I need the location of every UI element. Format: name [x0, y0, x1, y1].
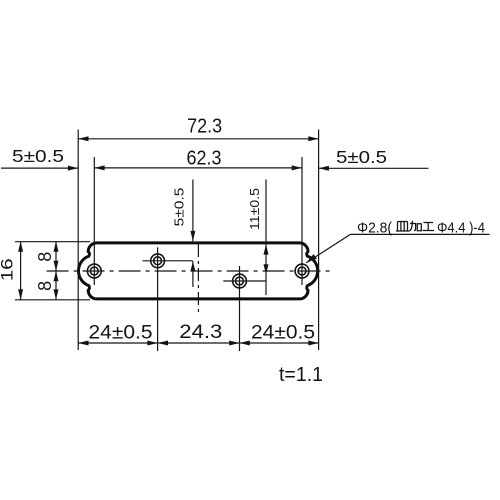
- svg-text:11±0.5: 11±0.5: [247, 188, 262, 230]
- arrowheads: [18, 136, 329, 345]
- svg-text:Φ2.8(: Φ2.8(: [357, 219, 392, 236]
- hole H4 inner: [298, 267, 306, 275]
- hole H3 inner: [236, 277, 244, 285]
- arrow chain left: [78, 341, 88, 346]
- centerline horizontal dash-dot: [47, 270, 330, 272]
- extension line top edge left: [15, 241, 90, 243]
- hole H2 inner: [154, 257, 162, 265]
- svg-text:5±0.5: 5±0.5: [172, 188, 187, 227]
- arrow 5 left: [68, 166, 78, 171]
- dimension line bottom chain: [78, 342, 318, 344]
- dimension line 16: [20, 241, 22, 299]
- svg-text:8: 8: [35, 281, 55, 291]
- dimension line 11 vertical: [265, 180, 267, 296]
- svg-text:72.3: 72.3: [187, 115, 222, 138]
- kanji sara (dish) drawn: [396, 222, 409, 232]
- arrow 8 top: [54, 241, 59, 251]
- plate outline: [78, 243, 317, 299]
- hole H2 outer: [151, 254, 165, 268]
- arrow chain at hole3 right: [240, 341, 250, 346]
- arrow chain at hole3 left: [229, 341, 239, 346]
- hole H1 outer: [87, 264, 101, 278]
- arrow 5v down: [190, 231, 195, 241]
- svg-text:5±0.5: 5±0.5: [12, 146, 64, 166]
- arrow 16 bottom: [18, 289, 23, 299]
- arrow 62.3 left: [94, 165, 104, 170]
- svg-text:5±0.5: 5±0.5: [336, 147, 387, 167]
- dimension line 72.3: [78, 138, 318, 140]
- hole H3 horizontal line: [223, 280, 266, 282]
- centerline vertical dash-dot: [197, 244, 199, 313]
- arrow 5v up: [190, 261, 195, 271]
- svg-text:24.3: 24.3: [179, 321, 222, 343]
- dimension line 5 vertical lower: [192, 261, 194, 287]
- svg-text:Φ4.4 )-4: Φ4.4 )-4: [437, 219, 485, 236]
- svg-text:t=1.1: t=1.1: [279, 363, 323, 386]
- arrow leader: [306, 254, 317, 263]
- dimension line 5 right: [319, 167, 429, 169]
- arrow 5 right: [319, 166, 329, 171]
- arrow chain at hole2 right: [158, 341, 168, 346]
- extension line left edge: [77, 130, 79, 351]
- arrow 72.3 right: [308, 136, 318, 141]
- extension line hole H3 center: [239, 266, 241, 351]
- arrow 72.3 left: [78, 136, 88, 141]
- arrow 11 down: [264, 264, 269, 274]
- extension line hole H4 center: [301, 157, 303, 285]
- svg-text:24±0.5: 24±0.5: [251, 322, 315, 344]
- kanji ka (add) drawn: [409, 221, 421, 231]
- svg-text:8: 8: [35, 252, 55, 262]
- arrow 62.3 right: [292, 165, 302, 170]
- arrow 8 mid up: [54, 271, 59, 281]
- kanji kou (work) drawn: [423, 223, 435, 231]
- hole H3 outer: [233, 274, 247, 288]
- dimension line 5 left: [1, 167, 78, 169]
- extension line bottom edge left: [15, 299, 90, 301]
- dimension line 5 vertical upper: [192, 180, 194, 242]
- dimension line 62.3: [94, 167, 302, 169]
- dimension line 8-8: [55, 241, 57, 299]
- hole H2 horizontal line: [143, 260, 193, 262]
- arrow 8 bottom: [54, 289, 59, 299]
- extension line hole H2 center: [157, 247, 159, 351]
- leader line: [306, 234, 489, 262]
- hole H4 outer: [295, 264, 309, 278]
- hole H1 inner: [90, 267, 98, 275]
- arrow 11 up: [264, 244, 269, 254]
- arrow chain at hole2 left: [147, 341, 157, 346]
- svg-text:16: 16: [0, 258, 16, 281]
- arrow 8 mid down: [54, 261, 59, 271]
- extension line hole H1 center: [93, 157, 95, 285]
- arrow chain right: [308, 341, 318, 346]
- svg-text:24±0.5: 24±0.5: [89, 322, 153, 344]
- arrow 16 top: [18, 241, 23, 251]
- extension line right edge: [318, 130, 320, 351]
- svg-text:62.3: 62.3: [187, 147, 222, 170]
